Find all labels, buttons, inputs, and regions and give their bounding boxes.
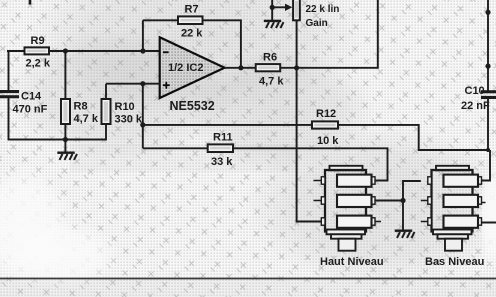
page cut mark top-left: [29, 0, 32, 5]
svg-text:4,7 k: 4,7 k: [74, 113, 99, 125]
svg-text:22 nF: 22 nF: [461, 100, 490, 112]
node junction C10: [486, 148, 490, 152]
ground below R8: [57, 152, 77, 160]
wire non-inverting input: [106, 83, 161, 85]
node junction non-inverting branch: [140, 81, 145, 86]
bottom strip shade: [0, 279, 496, 297]
svg-text:330 k: 330 k: [115, 113, 143, 125]
svg-text:R7: R7: [185, 3, 199, 15]
jack socket Haut Niveau: [314, 166, 382, 251]
resistor R7: [178, 16, 203, 24]
wire centre node ground stub: [402, 201, 404, 230]
node junction right edge upper: [485, 10, 490, 15]
wire centre node to Bas tip lead: [403, 181, 421, 201]
svg-text:2,2 k: 2,2 k: [26, 58, 51, 70]
jack socket Bas Niveau: [421, 166, 486, 251]
potentiometer P1 22k: [293, 0, 300, 68]
wire Haut ring contact to centre node: [375, 200, 403, 202]
svg-text:33 k: 33 k: [211, 156, 233, 168]
wire R9 to op-amp inverting input: [49, 50, 161, 52]
svg-text:C10: C10: [465, 85, 485, 97]
resistor R6: [256, 64, 281, 71]
svg-text:R10: R10: [115, 101, 135, 113]
ground centre: [395, 230, 415, 238]
svg-text:Haut Niveau: Haut Niveau: [320, 256, 384, 268]
dark mottle connector area: [245, 125, 496, 285]
wire R12 to right drop: [338, 125, 490, 150]
svg-text:Bas Niveau: Bas Niveau: [425, 256, 484, 268]
node junction centre: [400, 198, 405, 203]
wire branch drop: [142, 84, 144, 149]
wire R7 to feedback drop: [203, 20, 241, 68]
wire input to R9: [7, 50, 25, 52]
svg-text:Gain: Gain: [306, 18, 328, 29]
svg-text:NE5532: NE5532: [170, 99, 215, 113]
resistor R11: [208, 144, 233, 152]
node junction R12 branch: [140, 122, 145, 127]
wire branch to R11: [143, 147, 208, 149]
dark mottle centre: [185, 50, 375, 170]
wire drop to Bas jack tip contact: [478, 150, 490, 181]
light patch bottom-left: [0, 163, 74, 287]
wire output to Haut jack sleeve: [297, 68, 322, 222]
dark mottle top-centre: [25, 0, 365, 115]
capacitor C14: [0, 90, 19, 98]
wire to R12: [143, 124, 313, 126]
node junction pot/output: [294, 65, 299, 70]
svg-text:22 k lin: 22 k lin: [306, 4, 340, 15]
resistor R9: [25, 47, 50, 54]
dark mottle mid-left: [5, 30, 235, 160]
ground at pot wiper: [264, 20, 284, 28]
svg-text:R11: R11: [213, 132, 233, 144]
svg-text:1/2 IC2: 1/2 IC2: [168, 62, 203, 74]
wire ground stub: [64, 140, 66, 152]
resistor R10: [102, 99, 111, 124]
resistor R12: [312, 121, 338, 128]
wire to R7: [143, 19, 179, 21]
wire R10 top lead: [105, 84, 107, 100]
page fold line: [0, 278, 496, 280]
svg-text:470 nF: 470 nF: [13, 104, 48, 116]
light patch right edge: [478, 160, 496, 270]
svg-text:4,7 k: 4,7 k: [259, 76, 284, 88]
svg-text:R9: R9: [31, 35, 45, 47]
wire op-amp output: [225, 67, 257, 69]
node junction R8 bottom: [63, 137, 68, 142]
node junction feedback/inverting: [140, 48, 145, 53]
svg-text:R12: R12: [316, 108, 336, 120]
wire bottom rail: [9, 98, 107, 140]
node junction R9/R8: [63, 48, 68, 53]
node junction feedback/output: [238, 65, 243, 70]
svg-text:R6: R6: [263, 51, 277, 63]
wire Bas lower contact to edge: [478, 222, 496, 224]
wire R8 top lead: [64, 51, 66, 100]
wire R8 bottom lead: [64, 124, 66, 140]
wire R11 to Haut jack tip contact: [233, 148, 388, 180]
wire feedback riser: [142, 20, 144, 51]
svg-text:22 k: 22 k: [181, 28, 203, 40]
light patch bottom-left 2: [0, 220, 120, 290]
wire R6 to top riser: [280, 0, 378, 68]
capacitor C10: [481, 0, 496, 150]
wire C14 top lead: [8, 51, 10, 91]
shade band under schematic: [70, 144, 300, 172]
svg-text:C14: C14: [21, 91, 42, 103]
pot wiper arrow: [270, 0, 293, 20]
resistor R8: [61, 99, 70, 124]
svg-text:R8: R8: [74, 101, 88, 113]
svg-text:10 k: 10 k: [317, 135, 339, 147]
op-amp IC2: [160, 37, 225, 98]
node junction right edge lower: [485, 64, 490, 69]
